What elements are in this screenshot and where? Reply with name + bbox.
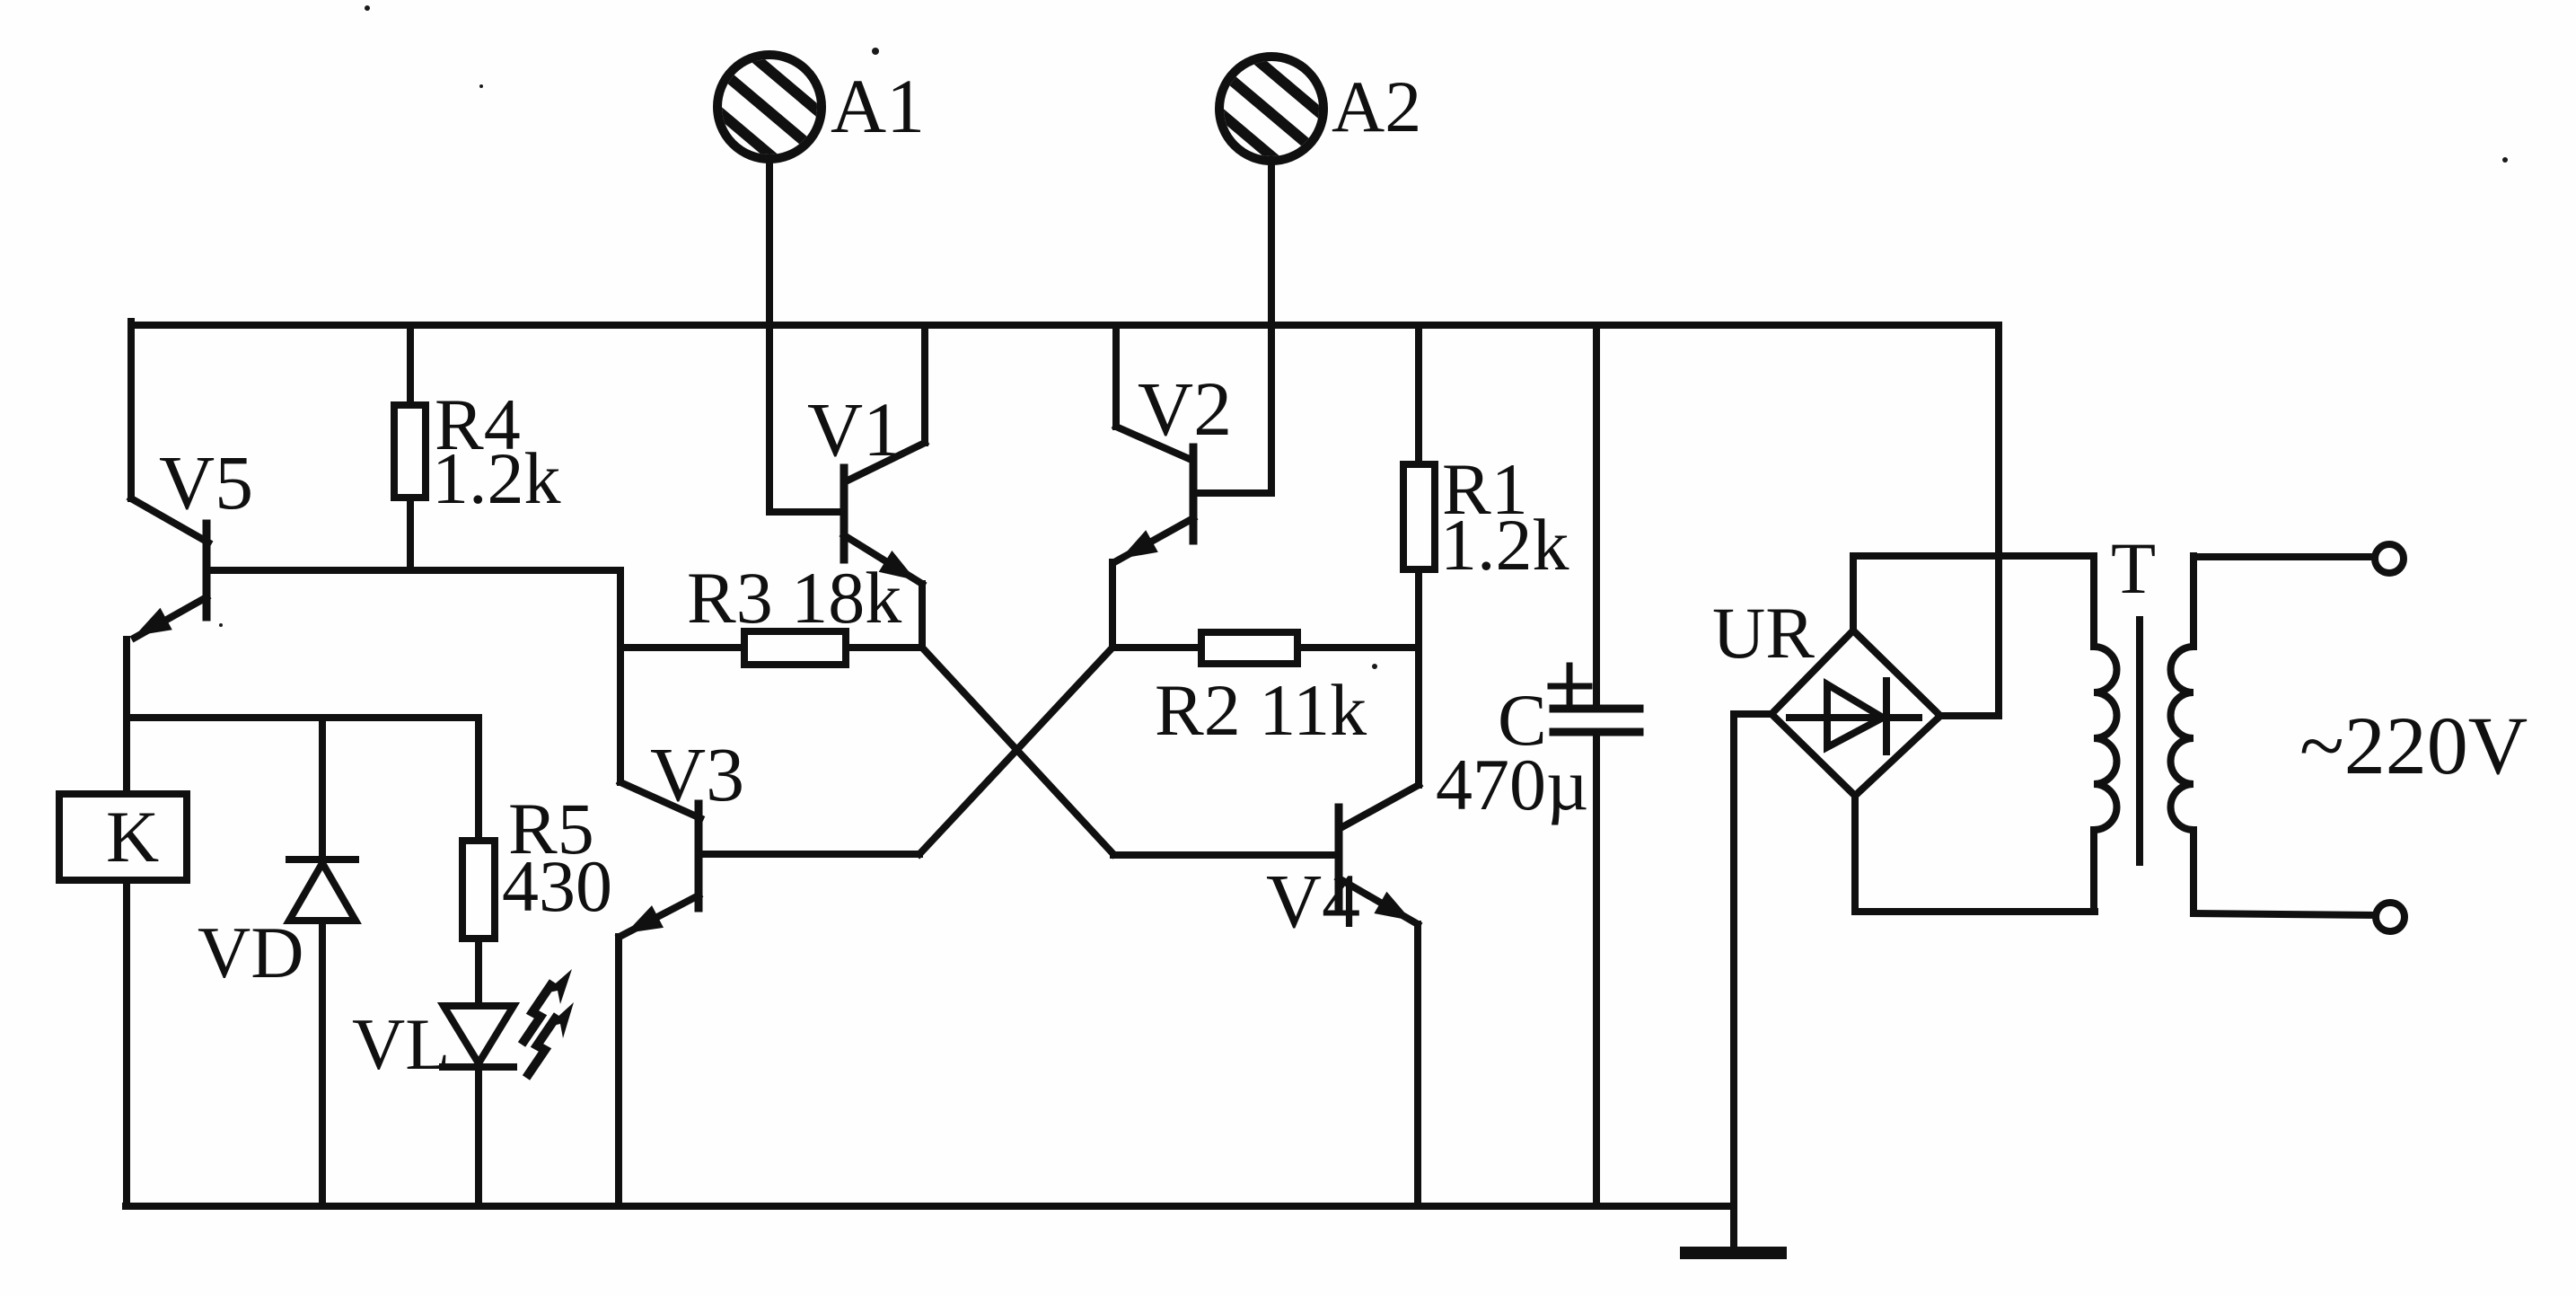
svg-text:VD: VD — [198, 912, 303, 993]
svg-text:V3: V3 — [650, 731, 744, 817]
svg-text:V4: V4 — [1266, 858, 1360, 944]
svg-text:430: 430 — [502, 845, 612, 927]
svg-text:T: T — [2111, 527, 2156, 609]
svg-text:~220V: ~220V — [2299, 700, 2528, 791]
svg-text:UR: UR — [1712, 592, 1815, 674]
svg-text:470µ: 470µ — [1436, 744, 1588, 825]
svg-text:V5: V5 — [159, 439, 253, 525]
svg-text:A1: A1 — [831, 63, 925, 149]
svg-text:K: K — [106, 796, 159, 877]
svg-text:R3 18k: R3 18k — [687, 557, 901, 639]
svg-text:1.2k: 1.2k — [1440, 504, 1569, 586]
svg-text:VL: VL — [352, 1003, 450, 1085]
svg-text:1.2k: 1.2k — [432, 437, 561, 519]
svg-text:A2: A2 — [1332, 66, 1421, 147]
svg-text:V1: V1 — [807, 386, 901, 472]
svg-text:V2: V2 — [1138, 366, 1232, 452]
svg-text:R2 11k: R2 11k — [1155, 669, 1367, 751]
